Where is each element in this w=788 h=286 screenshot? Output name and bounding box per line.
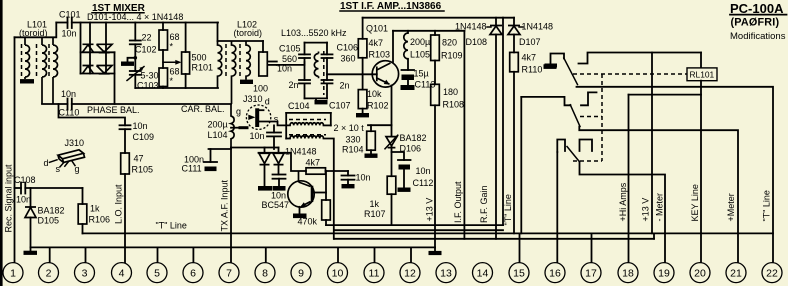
svg-text:R.F. Gain: R.F. Gain — [479, 185, 489, 223]
terminal 7 — [219, 263, 239, 283]
svg-text:Q101: Q101 — [366, 24, 388, 34]
resistor R102 10k — [362, 74, 364, 89]
resistor R108 180 — [434, 61, 436, 85]
svg-text:1k: 1k — [90, 204, 100, 214]
capacitor 10n after 4k7 — [347, 171, 349, 176]
rail T line (y=233.2) — [83, 232, 774, 234]
capacitor 10n coupling to filter — [268, 61, 277, 63]
terminal 4 — [112, 263, 132, 283]
terminal 22 — [762, 263, 782, 283]
diode D106 BA182 — [386, 137, 397, 148]
resistor 4k7 (horizontal) — [306, 168, 326, 174]
filter L103 left column with C105 — [304, 43, 306, 55]
diode bridge mid rails — [89, 23, 91, 74]
svg-text:200µ: 200µ — [410, 37, 430, 47]
svg-text:C112: C112 — [413, 178, 434, 188]
wire collector rail to I.F. output — [393, 30, 464, 32]
terminal 10 — [328, 263, 348, 283]
diode D105 BA182 — [30, 188, 32, 207]
svg-text:4k7: 4k7 — [369, 38, 384, 48]
terminal stubs — [49, 247, 51, 262]
resistor R110 4k7 — [510, 52, 519, 71]
rail 247.4 — [31, 246, 436, 248]
capacitor 2n C107 — [322, 79, 333, 81]
terminal 13 — [436, 263, 456, 283]
wire limiter to 4k7 — [285, 153, 307, 171]
svg-text:C111: C111 — [182, 164, 202, 174]
svg-text:1N4148: 1N4148 — [285, 147, 317, 157]
svg-text:4k7: 4k7 — [522, 53, 537, 63]
svg-text:D105: D105 — [38, 216, 60, 226]
svg-text:(PAØFRI): (PAØFRI) — [731, 16, 780, 28]
svg-text:10: 10 — [332, 268, 344, 280]
capacitor 10n at BC547 base — [278, 165, 280, 175]
terminal 11 — [364, 263, 384, 283]
transformer L102 top bracket — [217, 23, 219, 42]
svg-text:14: 14 — [477, 268, 489, 280]
svg-text:1k: 1k — [370, 199, 380, 209]
svg-text:R109: R109 — [441, 51, 463, 61]
svg-text:4: 4 — [119, 268, 125, 280]
diode b — [273, 153, 284, 164]
svg-text:R104: R104 — [342, 145, 364, 155]
wire lower winding down to bus rails — [324, 139, 334, 239]
svg-text:10n: 10n — [133, 121, 148, 131]
svg-text:4k7: 4k7 — [306, 158, 321, 168]
winding lower — [290, 136, 323, 139]
terminal 15 — [509, 263, 529, 283]
svg-text:RL101: RL101 — [690, 70, 715, 80]
svg-text:(toroid): (toroid) — [234, 28, 263, 38]
svg-text:10n: 10n — [61, 89, 76, 99]
collector wire — [392, 31, 394, 62]
svg-text:d: d — [44, 158, 49, 168]
svg-text:18: 18 — [622, 268, 634, 280]
svg-text:10n: 10n — [16, 195, 31, 205]
resistor R107 1k — [387, 176, 396, 194]
trimmer capacitor C103 — [130, 70, 141, 72]
capacitor C110 — [67, 99, 69, 110]
source wire of J310 — [259, 122, 290, 126]
svg-text:10n: 10n — [250, 131, 265, 141]
core dashed line — [48, 44, 50, 76]
wire emitter column down through D106 to R107 — [391, 125, 393, 136]
svg-text:10n: 10n — [416, 166, 431, 176]
svg-text:15: 15 — [513, 268, 525, 280]
resistor R104 330 — [370, 125, 372, 131]
resistor R105 — [124, 129, 126, 153]
terminal 3 — [75, 263, 95, 283]
inductor L102 winding 1 — [218, 41, 222, 88]
svg-text:+Hi Amps: +Hi Amps — [618, 182, 628, 221]
svg-text:J310: J310 — [243, 94, 263, 104]
filter right column with C106 — [326, 43, 328, 55]
ground stub under limiter — [264, 165, 266, 186]
relay contact 2 — [521, 97, 570, 105]
svg-text:16: 16 — [549, 268, 561, 280]
core dashed line — [225, 44, 227, 76]
diode D103 — [83, 66, 94, 74]
terminal 21 — [726, 263, 746, 283]
svg-text:"T" Line: "T" Line — [762, 190, 772, 221]
wire filter output to Q101 base — [327, 73, 377, 75]
svg-text:KEY Line: KEY Line — [690, 184, 700, 221]
svg-text:500: 500 — [192, 53, 207, 63]
IF amp top rail — [363, 17, 514, 19]
wire TX feed to limiter — [231, 147, 265, 149]
wire TX vertical (terminal 7) — [230, 148, 232, 263]
resistor R109 820 — [434, 31, 436, 35]
svg-text:22: 22 — [766, 268, 778, 280]
relay actuation dashed linkage — [573, 73, 687, 75]
svg-text:1: 1 — [10, 268, 16, 280]
capacitor C112 tap — [392, 152, 405, 160]
core dashed lines — [289, 119, 326, 121]
svg-text:CAR. BAL.: CAR. BAL. — [181, 104, 225, 114]
svg-text:2n: 2n — [289, 80, 299, 90]
svg-text:8: 8 — [262, 268, 268, 280]
inductor L102 winding 2 — [232, 41, 236, 104]
svg-text:180: 180 — [443, 87, 458, 97]
svg-text:BA182: BA182 — [400, 133, 427, 143]
terminal 14 — [473, 263, 493, 283]
transformer 2x10t top bracket — [286, 112, 331, 114]
terminal 2 — [39, 263, 59, 283]
left page border — [0, 0, 3, 286]
svg-text:BC547: BC547 — [262, 200, 290, 210]
svg-text:d: d — [265, 97, 270, 107]
ground under L101 w1 — [20, 79, 34, 83]
diode bridge row2 wire — [81, 73, 115, 75]
svg-text:470k: 470k — [298, 217, 318, 227]
svg-text:*: * — [170, 42, 174, 52]
diode D107 1N4148 — [513, 18, 515, 26]
diode D102 — [97, 44, 113, 52]
svg-text:R105: R105 — [132, 165, 154, 175]
svg-text:+13 V: +13 V — [641, 198, 651, 222]
capacitor C108 — [15, 187, 22, 189]
resistor 68 (lower) — [159, 68, 168, 87]
relay contact 1 — [545, 64, 558, 68]
diode D101 — [83, 44, 94, 52]
inductor L101 winding 3 — [53, 37, 58, 104]
diode bridge right rail down to phase bal line — [114, 52, 116, 104]
wire RL101 feed down — [700, 53, 702, 68]
svg-text:- Meter: - Meter — [655, 193, 665, 222]
svg-text:7: 7 — [226, 268, 232, 280]
diode bridge row1 wire — [81, 51, 115, 53]
svg-text:10n: 10n — [271, 191, 286, 201]
ground bar at contact 1 pole — [544, 64, 557, 69]
resistor 68 (upper) — [162, 23, 164, 31]
capacitor C111 — [209, 148, 232, 150]
svg-text:L105: L105 — [410, 50, 430, 60]
svg-text:R107: R107 — [364, 209, 386, 219]
capacitor C101 plates — [67, 18, 69, 29]
svg-text:R101: R101 — [192, 63, 214, 73]
capacitor C113 15u — [407, 59, 409, 70]
svg-text:R106: R106 — [89, 215, 111, 225]
wire jog from phase-bal rail to C109 — [59, 104, 126, 125]
svg-text:g: g — [75, 164, 80, 174]
wire 4k7 right — [326, 170, 349, 172]
svg-text:330: 330 — [346, 135, 361, 145]
svg-text:2: 2 — [46, 268, 52, 280]
diode bridge left rail — [80, 23, 82, 74]
svg-text:200µ: 200µ — [208, 120, 228, 130]
svg-text:Modifications: Modifications — [730, 31, 786, 42]
transformer L101 top bracket — [15, 23, 57, 38]
terminal 1 — [3, 263, 23, 283]
svg-text:L.O. Input: L.O. Input — [114, 184, 124, 224]
core dashed — [323, 51, 325, 95]
svg-text:560: 560 — [282, 54, 297, 64]
svg-text:C104: C104 — [288, 101, 310, 111]
wire to R104 and emitter — [368, 124, 392, 126]
svg-text:I.F. Output: I.F. Output — [453, 181, 463, 223]
terminal 17 — [581, 263, 601, 283]
capacitor 10n under J310 — [273, 125, 275, 132]
terminal 9 — [291, 263, 311, 283]
svg-text:10n: 10n — [62, 29, 77, 39]
svg-text:68: 68 — [170, 67, 180, 77]
terminal 19 — [654, 263, 674, 283]
svg-text:D108: D108 — [466, 37, 488, 47]
svg-text:5: 5 — [154, 268, 160, 280]
svg-text:C105: C105 — [279, 44, 301, 54]
svg-text:g: g — [236, 107, 241, 117]
svg-text:(toroid): (toroid) — [19, 28, 48, 38]
svg-text:D107: D107 — [519, 37, 541, 47]
svg-text:47: 47 — [134, 154, 144, 164]
wire contact3 pole down to terminal 16 — [556, 152, 558, 262]
wire contact1 lower throw to terminal 22 — [577, 87, 774, 262]
svg-text:BA182: BA182 — [38, 206, 65, 216]
wire mixer top rail — [72, 22, 218, 24]
svg-text:100: 100 — [253, 84, 268, 94]
svg-text:Rec. Signal input: Rec. Signal input — [4, 164, 14, 233]
terminal 12 — [400, 263, 420, 283]
svg-text:13: 13 — [440, 268, 452, 280]
svg-text:68: 68 — [170, 32, 180, 42]
svg-text:3: 3 — [82, 268, 88, 280]
inductor L104 on car-bal line — [231, 104, 234, 149]
ground under L102 w3 — [240, 80, 253, 84]
rail 230 — [334, 229, 503, 231]
svg-text:*: * — [170, 76, 174, 86]
svg-text:11: 11 — [369, 268, 380, 280]
wire +13V drop — [651, 53, 653, 234]
potentiometer R101 — [185, 23, 187, 53]
core dashed line — [239, 44, 241, 76]
svg-text:2 × 10 t: 2 × 10 t — [334, 123, 365, 133]
svg-text:R102: R102 — [367, 101, 389, 111]
svg-text:C106: C106 — [337, 42, 359, 52]
relay contact 3 — [557, 140, 565, 153]
limiter diode pair 1N4148 — [265, 147, 279, 149]
resistor 470k — [325, 171, 327, 200]
wiper arrow to R101 — [162, 50, 164, 68]
transistor J310 (carrier) — [246, 105, 270, 129]
terminal 16 — [545, 263, 565, 283]
filter top wire — [305, 42, 328, 44]
svg-text:2n: 2n — [340, 81, 350, 91]
wire contact3 throw to terminal 19 — [580, 162, 666, 263]
inductor L101 winding 2 — [42, 37, 47, 104]
wire — [14, 188, 16, 262]
svg-text:9: 9 — [298, 268, 304, 280]
svg-text:1N4148: 1N4148 — [455, 22, 487, 32]
rail 239.5 — [334, 238, 654, 240]
svg-text:820: 820 — [442, 38, 457, 48]
transistor Q101 — [372, 61, 398, 87]
rail R1 (y=225) — [326, 224, 503, 226]
inductor L101 winding 1 — [25, 37, 30, 79]
ground bar at D105 bottom — [24, 251, 38, 255]
wire contact2 throw to terminal 21 — [579, 127, 738, 263]
svg-text:R103: R103 — [369, 50, 391, 60]
svg-text:5-30: 5-30 — [141, 71, 159, 81]
svg-text:19: 19 — [658, 268, 670, 280]
svg-text:C107: C107 — [329, 100, 351, 110]
emitter wire — [391, 86, 393, 126]
svg-text:C101: C101 — [59, 10, 81, 20]
wire I.F. Output vertical — [463, 31, 465, 239]
core dashed line — [36, 44, 38, 76]
svg-text:12: 12 — [404, 268, 416, 280]
svg-text:+13 V: +13 V — [425, 198, 435, 222]
resistor R103 4k7 — [362, 18, 364, 39]
svg-text:20: 20 — [694, 268, 706, 280]
svg-text:D101-104... 4 × 1N4148: D101-104... 4 × 1N4148 — [87, 12, 183, 22]
junction dot — [134, 56, 138, 60]
svg-text:R108: R108 — [443, 100, 465, 110]
wire T line net vertical — [502, 18, 504, 225]
svg-text:"T" Line: "T" Line — [503, 194, 513, 225]
svg-text:L103...5520 kHz: L103...5520 kHz — [281, 28, 347, 38]
svg-text:22: 22 — [142, 33, 152, 43]
inductor L102 winding 3 — [246, 41, 250, 80]
filter bottom wire — [305, 97, 328, 99]
wire RL101 to terminal 20 — [700, 81, 702, 263]
diode a — [259, 153, 270, 164]
svg-text:360: 360 — [341, 53, 356, 63]
inductor L105 — [407, 31, 409, 33]
svg-text:1N4148: 1N4148 — [522, 22, 554, 32]
diode D104 — [97, 66, 113, 74]
svg-text:17: 17 — [585, 268, 597, 280]
svg-text:"T" Line: "T" Line — [156, 221, 187, 231]
transistor BC547 — [288, 181, 314, 207]
resistor 100 — [262, 41, 264, 52]
svg-text:L104: L104 — [208, 130, 228, 140]
relay RL101 box — [687, 68, 717, 81]
inductor L103 coil — [314, 52, 318, 79]
wire C101 left — [56, 22, 67, 24]
terminal 6 — [183, 263, 203, 283]
node: Rec. Signal input wire (terminal 1) — [14, 37, 16, 188]
diode D108 1N4148 — [495, 18, 497, 26]
svg-text:TX A.F. Input: TX A.F. Input — [220, 179, 230, 231]
terminal 20 — [690, 263, 710, 283]
wire phase-bal / car-bal rail — [42, 103, 68, 105]
svg-text:15µ: 15µ — [414, 69, 429, 79]
svg-text:10n: 10n — [277, 63, 292, 73]
svg-text:10k: 10k — [367, 89, 382, 99]
svg-text:C109: C109 — [133, 132, 155, 142]
svg-text:6: 6 — [190, 268, 196, 280]
ground tap left of C102/C103 node — [128, 58, 136, 62]
svg-text:+Meter: +Meter — [726, 193, 736, 221]
svg-text:C102: C102 — [135, 44, 157, 54]
svg-text:PHASE BAL.: PHASE BAL. — [87, 105, 140, 115]
svg-text:21: 21 — [730, 268, 742, 280]
winding upper — [290, 123, 323, 126]
resistor R106 — [82, 188, 84, 204]
capacitor C109 — [120, 124, 131, 126]
capacitor C102 — [134, 23, 136, 41]
svg-text:10n: 10n — [356, 173, 371, 183]
ground bar under filter — [315, 98, 317, 100]
capacitor 2n C104 — [299, 79, 310, 81]
terminal 5 — [147, 263, 167, 283]
svg-text:R110: R110 — [522, 65, 543, 75]
wire contact2 pole down to terminal 15 — [520, 97, 522, 234]
core dashed line — [21, 44, 23, 76]
mixer bottom wire — [135, 87, 218, 89]
svg-text:s: s — [56, 164, 61, 174]
svg-text:C110: C110 — [59, 108, 80, 118]
ground bar at rail 247 end — [434, 247, 436, 251]
svg-text:J310: J310 — [65, 138, 85, 148]
terminal 8 — [255, 263, 275, 283]
wire +Hi Amps — [629, 94, 702, 96]
terminal 18 — [618, 263, 638, 283]
